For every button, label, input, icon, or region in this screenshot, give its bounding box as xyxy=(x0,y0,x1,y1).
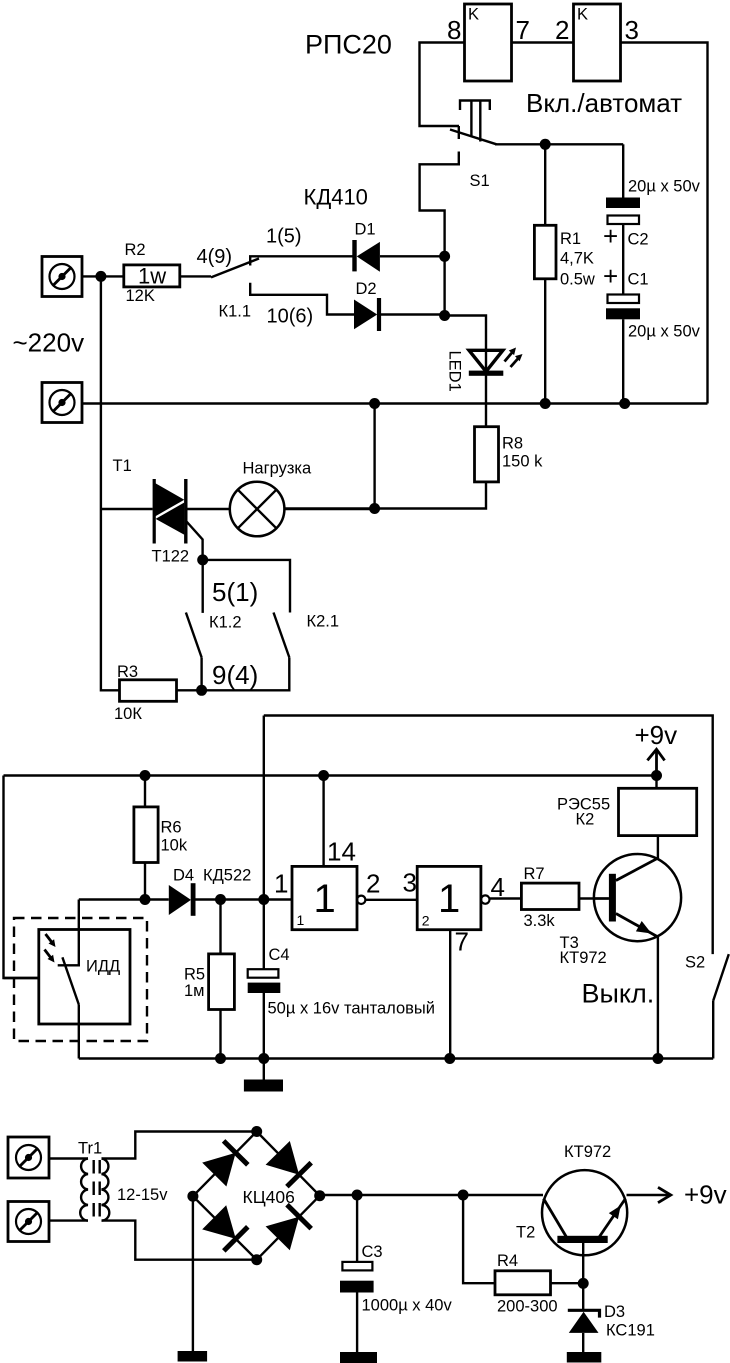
svg-text:1w: 1w xyxy=(138,264,166,289)
svg-text:3: 3 xyxy=(403,868,417,898)
resistor R3 xyxy=(120,680,177,702)
svg-text:14: 14 xyxy=(327,837,356,867)
wire R5 top xyxy=(219,900,221,954)
switch S2 blade xyxy=(713,954,729,1001)
svg-text:9(4): 9(4) xyxy=(212,660,258,690)
svg-text:T2: T2 xyxy=(516,1224,535,1242)
lamp Нагрузка xyxy=(230,482,285,537)
svg-text:КТ972: КТ972 xyxy=(560,949,607,967)
svg-text:~220v: ~220v xyxy=(13,328,85,358)
svg-text:D2: D2 xyxy=(356,280,377,298)
svg-text:D3: D3 xyxy=(604,1303,625,1321)
svg-text:К1.2: К1.2 xyxy=(209,614,242,632)
svg-text:1: 1 xyxy=(274,869,288,899)
svg-text:10k: 10k xyxy=(161,837,188,855)
wire triac to lamp xyxy=(188,508,231,510)
+9v arrow (bottom) xyxy=(658,1187,671,1202)
diode D1 xyxy=(352,240,356,271)
T3 collector line xyxy=(616,858,659,881)
svg-text:2: 2 xyxy=(422,913,430,929)
wire D2 node to LED1 xyxy=(445,316,486,351)
svg-text:R8: R8 xyxy=(502,435,523,453)
wire secondary bottom to bridge xyxy=(102,1221,257,1260)
LED1 xyxy=(469,350,503,371)
sensor left wire xyxy=(4,977,39,979)
svg-text:КД522: КД522 xyxy=(203,867,251,885)
sensor dashed box xyxy=(14,918,147,1041)
sensor bottom wire xyxy=(78,1005,80,1059)
junction node R3 row xyxy=(196,685,207,696)
T3 emitter line xyxy=(616,914,658,938)
junction node R5 top xyxy=(215,894,226,905)
wire pin7 to pin2 xyxy=(511,41,574,43)
junction node left rail top xyxy=(95,271,106,282)
svg-text:РПС20: РПС20 xyxy=(305,30,392,60)
resistor R4 xyxy=(495,1271,551,1295)
ground below D3 xyxy=(567,1352,602,1363)
wire D3 top xyxy=(582,1283,584,1311)
junction node D2 xyxy=(439,310,450,321)
junction node S1/R1 xyxy=(540,139,551,150)
terminal X1 xyxy=(42,257,82,297)
wire C3 top xyxy=(356,1195,358,1262)
ground below C3 xyxy=(340,1352,377,1363)
terminal X4 xyxy=(8,1202,49,1242)
wire left rail to triac xyxy=(101,508,153,510)
wire gate2 out to R7 xyxy=(490,897,522,899)
bottom rail of middle section xyxy=(79,1057,713,1059)
svg-text:1(5): 1(5) xyxy=(266,226,302,248)
DC output wire xyxy=(320,1194,543,1196)
junction node C4 bottom xyxy=(258,1053,269,1064)
T2 collector line xyxy=(544,1199,568,1239)
wire C3 bottom xyxy=(356,1293,358,1353)
svg-text:Т122: Т122 xyxy=(152,548,190,566)
junction node C4 top xyxy=(258,894,269,905)
svg-text:R2: R2 xyxy=(125,241,146,259)
wire secondary top to bridge xyxy=(102,1132,257,1159)
svg-text:Нагрузка: Нагрузка xyxy=(243,460,312,478)
resistor R7 xyxy=(521,883,579,909)
svg-text:Выкл.: Выкл. xyxy=(582,979,655,1009)
T3 base bar xyxy=(609,874,616,922)
svg-text:D4: D4 xyxy=(173,867,194,885)
svg-text:D1: D1 xyxy=(355,221,376,239)
wire left rail down to R3 xyxy=(101,276,120,690)
transistor T2 circle xyxy=(542,1170,627,1255)
sensor top wire xyxy=(58,900,79,966)
bridge diode top-left xyxy=(202,1153,236,1187)
svg-text:R5: R5 xyxy=(184,966,205,984)
svg-text:7: 7 xyxy=(455,927,469,957)
wire pin3 to right rail xyxy=(620,43,708,404)
junction node R6 top xyxy=(140,770,151,781)
bridge diode bottom-right xyxy=(266,1217,300,1251)
junction node R4 branch xyxy=(458,1190,469,1201)
switch S1 pushbutton actuator xyxy=(460,101,490,111)
svg-text:2: 2 xyxy=(366,869,380,899)
wire terminal X1 to R2 xyxy=(82,275,124,277)
svg-text:R7: R7 xyxy=(524,865,545,883)
svg-text:3.3k: 3.3k xyxy=(524,912,556,930)
resistor R8 xyxy=(475,427,499,482)
junction node pin7 bottom xyxy=(444,1053,455,1064)
wire C4 column xyxy=(263,716,265,970)
svg-text:7: 7 xyxy=(516,15,530,45)
wire pin7 xyxy=(449,930,451,1059)
wire S1 blade to C2 xyxy=(495,143,623,145)
svg-text:1: 1 xyxy=(314,877,336,921)
triac T1 xyxy=(153,479,156,544)
resistor R1 xyxy=(534,225,556,278)
capacitor C2 xyxy=(606,198,640,209)
svg-text:20µ x 50v: 20µ x 50v xyxy=(628,178,701,196)
contact K2.1 wire from gate node xyxy=(203,560,290,613)
wire pin8 to S1 xyxy=(420,43,465,127)
bridge frame xyxy=(193,1132,320,1260)
wire C2 to C1 xyxy=(622,224,624,295)
T3 base wire inside xyxy=(594,897,609,899)
junction node +9v/relay xyxy=(651,770,662,781)
svg-text:50µ x 16v танталовый: 50µ x 16v танталовый xyxy=(268,1000,436,1018)
sensor inner box ИДД xyxy=(39,930,130,1025)
capacitor C1 xyxy=(608,295,640,304)
contact K2.1 bottom wire xyxy=(202,657,290,690)
sensor radiation arrows xyxy=(45,934,53,958)
wire R5 bottom xyxy=(219,1010,221,1059)
svg-text:КС191: КС191 xyxy=(606,1322,655,1340)
resistor R6 xyxy=(134,807,158,863)
logic gate U1.2 box xyxy=(417,866,481,929)
svg-text:C2: C2 xyxy=(628,231,649,249)
junction node D3 top xyxy=(578,1278,589,1289)
capacitor C3 xyxy=(342,1262,372,1271)
svg-text:12-15v: 12-15v xyxy=(117,1186,168,1204)
svg-text:12K: 12K xyxy=(126,287,155,305)
contact K1.2 bottom wire xyxy=(200,657,202,690)
svg-text:C3: C3 xyxy=(362,1243,383,1261)
logic gate U1.1 box xyxy=(292,866,357,929)
wire lamp to R8 column xyxy=(284,508,374,510)
svg-text:1: 1 xyxy=(438,877,460,921)
transistor T3 circle xyxy=(594,854,681,941)
T2 emitter arrow xyxy=(609,1206,621,1220)
terminal X2 xyxy=(42,383,82,423)
wire C1 bottom xyxy=(622,319,624,403)
wire T2 base down xyxy=(582,1243,584,1283)
junction node bridge left xyxy=(187,1191,198,1202)
svg-text:К2: К2 xyxy=(576,811,595,829)
junction node R5 bottom xyxy=(215,1053,226,1064)
switch S2 bottom wire xyxy=(712,1001,714,1059)
wire R1 bottom xyxy=(544,279,546,404)
junction node bridge bottom xyxy=(251,1254,262,1265)
junction node R1 bottom xyxy=(540,398,551,409)
wire R4 branch xyxy=(463,1195,495,1283)
junction node emitter bottom xyxy=(652,1053,663,1064)
bridge diode bottom-left xyxy=(202,1205,236,1239)
switch S1 upper fixed contact xyxy=(458,126,460,139)
svg-text:КД410: КД410 xyxy=(304,185,368,210)
wire pin14 xyxy=(322,776,324,867)
svg-text:R4: R4 xyxy=(497,1252,518,1270)
switch S1 lower contact wire to diode node xyxy=(420,152,459,316)
left frame wire to IDD xyxy=(4,776,39,979)
relay coil box K2 xyxy=(574,4,621,81)
contact upper fixed 1(5) xyxy=(250,256,352,265)
svg-text:+9v: +9v xyxy=(684,1180,727,1210)
T2 base bar xyxy=(557,1236,607,1243)
svg-text:1м: 1м xyxy=(184,982,205,1000)
wire relay to T3 collector xyxy=(657,836,659,859)
+9v rail xyxy=(4,774,657,776)
svg-text:Tr1: Tr1 xyxy=(78,1140,102,1158)
svg-text:8: 8 xyxy=(447,15,461,45)
wire R7 to T3 base xyxy=(579,897,609,899)
junction node triac gate xyxy=(197,554,208,565)
svg-text:КЦ406: КЦ406 xyxy=(243,1187,295,1207)
svg-text:4(9): 4(9) xyxy=(197,246,233,268)
+9v arrow xyxy=(647,749,664,775)
wire IDD top to D4 row xyxy=(79,898,169,900)
svg-text:T1: T1 xyxy=(113,457,132,475)
junction node C3 top xyxy=(352,1190,363,1201)
relay coil box K1 (РПС20) xyxy=(465,4,512,81)
svg-text:К2.1: К2.1 xyxy=(307,613,340,631)
svg-text:R3: R3 xyxy=(117,663,138,681)
svg-text:3: 3 xyxy=(625,15,639,45)
svg-text:0.5w: 0.5w xyxy=(560,271,595,289)
junction node pin14 rail xyxy=(318,770,329,781)
svg-text:20µ x 50v: 20µ x 50v xyxy=(628,323,701,341)
wire X4 to Tr1 primary xyxy=(49,1219,88,1221)
wire C2 top xyxy=(622,144,624,198)
diode D2 xyxy=(354,300,377,330)
junction node rail/lamp branch xyxy=(369,398,380,409)
wire X3 to Tr1 primary xyxy=(49,1157,88,1159)
svg-text:K: K xyxy=(468,6,479,24)
svg-text:150 k: 150 k xyxy=(502,453,543,471)
svg-text:+9v: +9v xyxy=(635,720,678,750)
T3 emitter arrow xyxy=(636,921,652,934)
junction node D1 xyxy=(439,251,450,262)
wire R2 to contact blade xyxy=(180,275,211,277)
wire D3 bottom xyxy=(582,1333,584,1352)
wire R4 to D3 xyxy=(551,1282,584,1284)
svg-text:+: + xyxy=(603,261,618,291)
terminal X3 xyxy=(8,1137,49,1178)
relay coil РЭС55 К2 xyxy=(619,788,697,835)
contact K1.1 blade 4(9) xyxy=(211,259,259,278)
transformer Tr1 secondary winding xyxy=(102,1159,110,1221)
gate U1.2 output bubble pin4 xyxy=(481,895,489,903)
wire R1 top xyxy=(544,144,546,225)
svg-text:R6: R6 xyxy=(161,819,182,837)
transformer Tr1 primary winding xyxy=(80,1159,88,1221)
contact lower fixed 10(6) wire xyxy=(250,283,354,315)
wire R3 to K1.2 xyxy=(177,689,202,691)
contact K1.2 blade xyxy=(186,613,202,658)
junction node bridge right xyxy=(314,1190,325,1201)
svg-text:4,7K: 4,7K xyxy=(560,250,594,268)
svg-text:КТ972: КТ972 xyxy=(564,1143,611,1161)
switch S1 blade xyxy=(450,130,497,145)
svg-text:R1: R1 xyxy=(560,230,581,248)
junction node bridge top xyxy=(251,1126,262,1137)
wire R6 top xyxy=(144,776,146,807)
svg-text:200-300: 200-300 xyxy=(497,1298,558,1316)
contact K1.2 top wire xyxy=(201,560,203,613)
svg-text:5(1): 5(1) xyxy=(212,577,258,607)
svg-text:Вкл./автомат: Вкл./автомат xyxy=(526,88,682,118)
wire bridge left to ground xyxy=(192,1196,194,1351)
svg-text:10(6): 10(6) xyxy=(267,306,314,328)
T2 emitter line xyxy=(599,1199,626,1239)
bridge diode top-right xyxy=(266,1141,300,1175)
contact K2.1 blade xyxy=(274,613,290,658)
wire C4 bottom xyxy=(263,993,265,1059)
transformer Tr1 core xyxy=(92,1160,94,1220)
middle frame top wire xyxy=(264,716,713,955)
wire lamp branch vertical xyxy=(373,404,375,509)
triac gate wire xyxy=(187,522,203,560)
wire gate1 out to gate2 in xyxy=(365,899,417,901)
diode D4 xyxy=(169,885,191,915)
sensor switch blade xyxy=(62,957,78,1004)
svg-text:LED1: LED1 xyxy=(446,351,464,392)
zener diode D3 xyxy=(568,1310,600,1317)
ground below C4 xyxy=(263,1059,265,1081)
junction node load row xyxy=(369,503,380,514)
svg-text:1: 1 xyxy=(297,912,305,928)
LED1 light arrows xyxy=(505,353,519,367)
svg-text:+: + xyxy=(603,221,618,251)
junction node C1 bottom xyxy=(619,398,630,409)
svg-text:K: K xyxy=(577,6,588,24)
svg-text:2: 2 xyxy=(555,15,569,45)
wire T2 emitter to +9v arrow xyxy=(627,1194,670,1196)
svg-text:S2: S2 xyxy=(685,954,705,972)
svg-text:C1: C1 xyxy=(628,271,649,289)
svg-text:ИДД: ИДД xyxy=(86,958,120,976)
neutral rail 220v xyxy=(82,402,708,404)
svg-text:S1: S1 xyxy=(470,172,490,190)
resistor R5 xyxy=(209,954,235,1010)
svg-text:К1.1: К1.1 xyxy=(219,303,252,321)
wire R8 bottom to load row xyxy=(284,482,486,509)
svg-text:C4: C4 xyxy=(269,946,290,964)
junction node R6/D4 xyxy=(140,894,151,905)
wire relay K2 top xyxy=(655,776,657,789)
resistor R2 xyxy=(124,265,180,287)
gate U1.1 output bubble pin2 xyxy=(357,896,365,904)
ground below bridge xyxy=(178,1351,208,1362)
svg-text:1000µ x 40v: 1000µ x 40v xyxy=(362,1297,453,1315)
wire R6 bottom xyxy=(144,863,146,900)
svg-text:10К: 10К xyxy=(114,705,142,723)
capacitor C4 xyxy=(248,969,279,978)
wire T3 emitter down xyxy=(657,937,659,1059)
